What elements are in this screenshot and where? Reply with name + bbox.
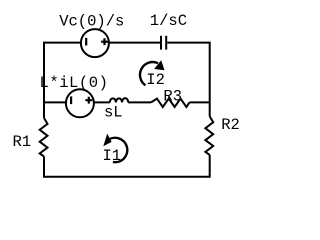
- svg-text:sL: sL: [104, 104, 123, 122]
- svg-text:I1: I1: [103, 147, 122, 165]
- mesh current I1 arc (counterclockwise): [107, 138, 127, 162]
- I1 arrowhead: [103, 134, 111, 147]
- capacitor C right plate: [165, 36, 167, 50]
- resistor R1 zigzag: [40, 118, 48, 157]
- svg-text:1/sC: 1/sC: [150, 12, 187, 30]
- V1 plus sign: [101, 38, 108, 45]
- svg-text:R2: R2: [221, 116, 240, 134]
- resistor R3 zigzag: [151, 99, 190, 107]
- svg-text:R1: R1: [13, 133, 32, 151]
- voltage source V2 circle: [66, 89, 94, 117]
- svg-text:R3: R3: [163, 87, 182, 105]
- V2 plus sign: [85, 97, 92, 104]
- capacitor C left plate: [160, 36, 162, 50]
- V2 minus terminal bar: [70, 96, 72, 104]
- resistor R2 zigzag: [205, 116, 213, 154]
- svg-text:L*iL(0): L*iL(0): [40, 74, 109, 92]
- wire middle between inductor and R3: [128, 101, 151, 103]
- wire top-left horizontal and left rail upper (corner): [44, 43, 82, 118]
- wire top between source V1 and capacitor left plate: [108, 42, 160, 44]
- mesh current I2 arc (clockwise): [140, 62, 158, 85]
- voltage source V1 circle: [81, 29, 109, 57]
- wire middle between R3 and right rail: [190, 101, 210, 103]
- wire bottom rail with both lower rail stubs (corners): [44, 155, 210, 177]
- inductor sL coil: [110, 98, 128, 102]
- wire top-right from capacitor to right rail and down to R2 (corner): [167, 43, 210, 117]
- wire middle between source V2 and inductor: [93, 101, 109, 103]
- V1 minus terminal bar: [85, 38, 87, 46]
- svg-text:Vc(0)/s: Vc(0)/s: [59, 12, 124, 30]
- svg-text:I2: I2: [146, 71, 165, 89]
- wire middle-left from left rail to source V2: [44, 101, 67, 103]
- I2 arrowhead: [154, 60, 164, 70]
